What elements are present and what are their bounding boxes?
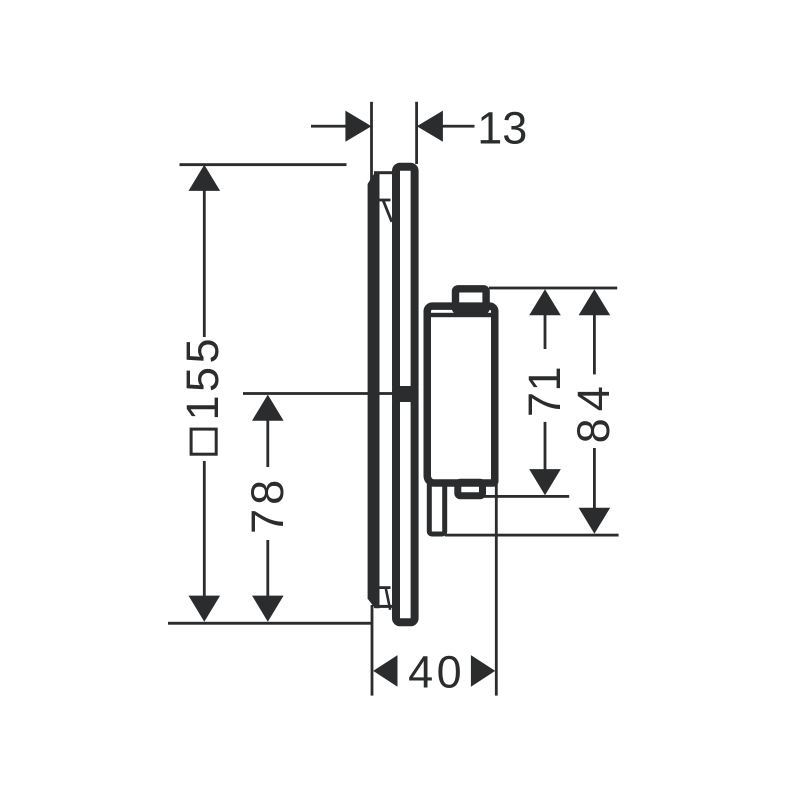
svg-text:155: 155 bbox=[177, 335, 228, 421]
arrowhead 78 up bbox=[252, 395, 284, 421]
escutcheon top face line bbox=[374, 171, 393, 174]
handle bottom cap bbox=[458, 482, 483, 495]
label square 155 symbol bbox=[177, 335, 228, 454]
dimension line 84 upper stub bbox=[593, 315, 596, 375]
dimension line 84 lower stub bbox=[593, 448, 596, 509]
arrowhead 71 down bbox=[529, 469, 561, 495]
arrowhead 84 up bbox=[579, 289, 611, 315]
handle top cap bbox=[456, 289, 487, 311]
escutcheon bottom detail line bbox=[376, 586, 391, 589]
svg-text:40: 40 bbox=[408, 646, 465, 697]
escutcheon top detail line bbox=[376, 199, 391, 202]
cover plate joint seam block bbox=[392, 388, 419, 401]
escutcheon wall sleeve (bar A) bbox=[368, 172, 380, 608]
extension line 40 right bbox=[495, 485, 498, 696]
extension line 13 left (wall face) bbox=[370, 102, 373, 185]
dimension line 78 upper stub bbox=[266, 420, 269, 467]
svg-text:84: 84 bbox=[568, 379, 619, 443]
handle body bbox=[427, 306, 495, 483]
dimension line 78 lower stub bbox=[266, 540, 269, 597]
escutcheon bottom face line bbox=[374, 605, 393, 608]
arrowhead 155 down bbox=[189, 596, 221, 622]
extension line 71 bottom bbox=[484, 495, 570, 498]
dimension line 155 lower stub bbox=[203, 461, 206, 597]
label 71 bbox=[519, 366, 570, 417]
extension line 155 top bbox=[180, 163, 347, 166]
dimension line 13 left tail bbox=[311, 125, 347, 128]
svg-text:13: 13 bbox=[477, 102, 527, 153]
label 78 bbox=[242, 476, 293, 534]
valve housing lower step bbox=[429, 483, 444, 535]
extension line 155/78 bottom bbox=[168, 622, 373, 625]
arrowhead 71 up bbox=[529, 289, 561, 315]
extension line 13 right (plate front) bbox=[415, 102, 418, 164]
dimension line 155 upper stub bbox=[203, 190, 206, 337]
extension line 84 bottom bbox=[445, 534, 619, 537]
arrowhead 13 left bbox=[345, 111, 371, 142]
extension line 40 left bbox=[371, 605, 374, 696]
arrowhead 155 up bbox=[189, 165, 221, 191]
arrowhead 13 right bbox=[417, 111, 443, 142]
arrowhead 78 down bbox=[252, 596, 284, 622]
svg-text:71: 71 bbox=[519, 366, 570, 417]
arrowhead 40 right bbox=[471, 655, 495, 687]
extension line 78 top (knob centre) bbox=[243, 392, 395, 395]
svg-text:78: 78 bbox=[242, 476, 293, 534]
cover plate lower half bbox=[396, 398, 415, 622]
extension line 71/84 top bbox=[489, 287, 617, 290]
escutcheon bottom detail diagonal bbox=[386, 588, 390, 610]
dimension line 71 lower stub bbox=[544, 422, 547, 470]
handle collar seam line bbox=[427, 313, 496, 317]
dimension line 71 upper stub bbox=[544, 315, 547, 350]
arrowhead 84 down bbox=[579, 508, 611, 534]
cover plate upper half bbox=[396, 167, 415, 390]
label 84 bbox=[568, 379, 619, 443]
dimension line 13 right tail bbox=[442, 125, 475, 128]
arrowhead 40 left bbox=[373, 655, 397, 687]
escutcheon top detail diagonal bbox=[383, 200, 392, 222]
